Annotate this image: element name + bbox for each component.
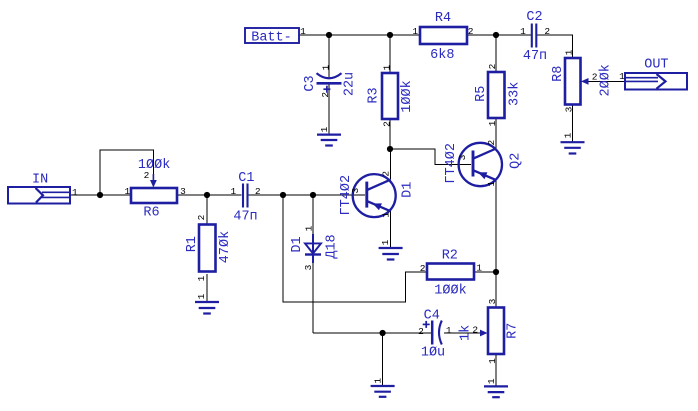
- connector IN: [8, 173, 78, 204]
- svg-text:3: 3: [180, 186, 186, 197]
- svg-text:R6: R6: [143, 206, 159, 221]
- svg-text:C3: C3: [303, 75, 318, 91]
- ground below R8: [561, 132, 585, 153]
- svg-text:2ØØk: 2ØØk: [598, 64, 613, 96]
- transistor Q2 GT402: [444, 140, 524, 187]
- plus sign of C3: [323, 88, 330, 90]
- svg-text:1: 1: [320, 65, 331, 71]
- svg-text:2: 2: [418, 326, 424, 337]
- wire R5 top lead: [495, 35, 497, 72]
- potentiometer R8: [551, 49, 614, 112]
- junction node E bottom rail: [380, 330, 386, 336]
- resistor R5: [474, 63, 523, 126]
- svg-text:R5: R5: [474, 86, 489, 102]
- svg-text:1: 1: [196, 275, 207, 281]
- ground below C3: [317, 126, 341, 145]
- junction node B at R1: [204, 192, 210, 198]
- svg-text:2: 2: [381, 121, 392, 127]
- svg-text:6k8: 6k8: [430, 48, 454, 63]
- emitter arrow of Q2: [478, 172, 487, 179]
- svg-text:1: 1: [486, 181, 497, 187]
- svg-text:2: 2: [196, 214, 207, 220]
- wire node A to R6 pin1: [100, 194, 131, 196]
- wire R1 top lead: [206, 195, 208, 225]
- svg-text:1: 1: [373, 378, 384, 384]
- wire R7 bottom to ground: [495, 354, 497, 386]
- svg-text:1: 1: [487, 358, 498, 364]
- resistor R4: [412, 11, 473, 63]
- svg-text:IN: IN: [32, 173, 48, 188]
- svg-text:1: 1: [125, 186, 131, 197]
- plus sign of C4: [423, 323, 430, 325]
- svg-text:1ØØk: 1ØØk: [400, 80, 415, 112]
- svg-text:2: 2: [468, 26, 474, 37]
- svg-text:1: 1: [196, 293, 207, 299]
- junction node F emitter R2: [493, 269, 499, 275]
- wire R1 bottom to ground: [206, 274, 208, 302]
- svg-text:1: 1: [230, 186, 236, 197]
- junction node A at IN: [97, 192, 103, 198]
- svg-text:1: 1: [319, 126, 330, 132]
- wire IN to node A: [70, 194, 100, 196]
- ground below R1: [195, 293, 219, 313]
- wire D1 emitter to ground: [390, 211, 392, 248]
- svg-text:47п: 47п: [523, 49, 547, 64]
- svg-text:R4: R4: [435, 11, 451, 26]
- wire node B to C1: [207, 194, 242, 196]
- svg-text:1: 1: [476, 262, 482, 273]
- svg-text:2: 2: [255, 186, 261, 197]
- svg-text:3: 3: [564, 106, 575, 112]
- svg-text:1: 1: [520, 26, 526, 37]
- junction top rail at R5: [493, 32, 499, 38]
- capacitor C1: [230, 171, 260, 224]
- svg-text:3: 3: [350, 188, 361, 194]
- junction top rail at C3: [326, 32, 332, 38]
- svg-text:2: 2: [544, 26, 550, 37]
- ground below R7: [484, 378, 508, 397]
- wire Q2 emitter down to R7: [495, 180, 497, 308]
- wire Batt- to top rail left segment: [299, 34, 420, 36]
- wiper arrow of R6: [152, 174, 154, 181]
- wire diode D1 top lead: [312, 195, 314, 234]
- diode D1: [290, 225, 339, 270]
- junction node below R3: [387, 146, 393, 152]
- svg-text:ГТ4Ø2: ГТ4Ø2: [339, 175, 354, 216]
- svg-text:Batt-: Batt-: [251, 30, 292, 45]
- svg-text:C4: C4: [424, 309, 440, 324]
- wire diode bottom down to bottom rail: [312, 263, 314, 333]
- svg-text:1: 1: [446, 325, 452, 336]
- capacitor C4 polarized: [418, 309, 452, 361]
- svg-text:22u: 22u: [342, 72, 357, 96]
- svg-text:3: 3: [487, 298, 498, 304]
- wire node C down and across to R2 pin2: [283, 195, 427, 302]
- svg-text:R2: R2: [442, 249, 458, 264]
- junction node D at diode: [310, 192, 316, 198]
- wire R3 top lead: [389, 35, 391, 73]
- svg-text:C1: C1: [238, 171, 254, 186]
- wire top rail right segment R4 to C2: [467, 34, 531, 36]
- svg-text:3: 3: [303, 264, 314, 270]
- svg-text:R7: R7: [505, 323, 520, 339]
- svg-text:2: 2: [320, 92, 331, 98]
- wire R8 wiper to OUT: [581, 80, 625, 82]
- svg-text:2: 2: [487, 63, 498, 69]
- svg-text:D1: D1: [401, 182, 416, 198]
- wire C4 to R7 wiper: [444, 332, 483, 334]
- svg-text:1: 1: [563, 132, 574, 138]
- junction node C after C1: [280, 192, 286, 198]
- wire C1 to D1 base through nodes C and D: [249, 194, 366, 196]
- wire bottom rail to C4: [313, 332, 431, 334]
- svg-text:1Øu: 1Øu: [421, 345, 445, 360]
- svg-text:1: 1: [486, 378, 497, 384]
- ground below bottom rail node E: [371, 378, 395, 397]
- wiper arrow of R8: [581, 78, 589, 85]
- emitter arrow of D1: [373, 203, 382, 210]
- capacitor C3 polarized: [303, 65, 357, 98]
- capacitor C2: [520, 10, 550, 64]
- junction top rail at R3: [387, 32, 393, 38]
- wire R8 bottom to ground: [572, 105, 574, 143]
- svg-text:33k: 33k: [508, 82, 523, 106]
- svg-text:1: 1: [72, 187, 78, 198]
- connector OUT: [619, 58, 687, 90]
- wire R3 bottom to node: [389, 119, 391, 149]
- svg-text:1: 1: [381, 65, 392, 71]
- svg-text:1: 1: [487, 120, 498, 126]
- svg-text:1: 1: [564, 49, 575, 55]
- resistor R1: [185, 214, 233, 281]
- svg-text:OUT: OUT: [644, 58, 668, 73]
- svg-text:R1: R1: [185, 236, 200, 252]
- wire feedback node A to R6 wiper: [100, 150, 153, 195]
- svg-text:2: 2: [380, 171, 391, 177]
- wire R5 bottom to Q2 collector: [495, 118, 497, 149]
- potentiometer R7: [458, 298, 520, 364]
- svg-text:1: 1: [304, 225, 315, 231]
- svg-text:R8: R8: [551, 66, 566, 82]
- wire C3 top lead: [328, 35, 330, 77]
- wire R2 pin1 to emitter line node F: [474, 271, 496, 273]
- svg-text:47Øk: 47Øk: [218, 231, 233, 263]
- wire node down to D1 collector: [390, 149, 392, 180]
- potentiometer R6: [125, 158, 187, 221]
- connector Batt-: [245, 26, 306, 45]
- wire R6 pin3 to node B: [177, 194, 207, 196]
- svg-text:1: 1: [300, 26, 306, 37]
- svg-text:Q2: Q2: [509, 153, 524, 169]
- svg-text:3: 3: [457, 154, 468, 160]
- wire node to Q2 base: [390, 149, 471, 165]
- svg-text:1: 1: [380, 212, 391, 218]
- svg-text:1ØØk: 1ØØk: [434, 284, 466, 299]
- svg-text:ГТ4Ø2: ГТ4Ø2: [444, 143, 459, 184]
- wiper arrow of R7: [480, 330, 488, 337]
- svg-text:1: 1: [380, 239, 391, 245]
- svg-text:47п: 47п: [233, 209, 257, 224]
- wire C2 to corner above R8: [537, 35, 573, 58]
- svg-text:2: 2: [144, 170, 150, 181]
- resistor R2: [420, 249, 483, 299]
- wire C3 bottom lead to ground: [328, 84, 330, 135]
- svg-text:2: 2: [486, 140, 497, 146]
- svg-text:1: 1: [412, 26, 418, 37]
- svg-text:2: 2: [472, 325, 478, 336]
- svg-text:2: 2: [420, 263, 426, 274]
- ground below transistor D1: [379, 239, 403, 259]
- svg-text:D1: D1: [290, 236, 305, 252]
- svg-text:2: 2: [592, 72, 598, 83]
- svg-text:1: 1: [619, 71, 625, 82]
- resistor R3: [366, 65, 415, 127]
- svg-text:1k: 1k: [458, 325, 473, 341]
- svg-text:C2: C2: [526, 10, 542, 25]
- wire ground stub at bottom rail node E: [382, 333, 384, 386]
- transistor D1 GT402: [339, 171, 416, 218]
- svg-text:R3: R3: [366, 87, 381, 103]
- svg-text:Д18: Д18: [324, 234, 339, 258]
